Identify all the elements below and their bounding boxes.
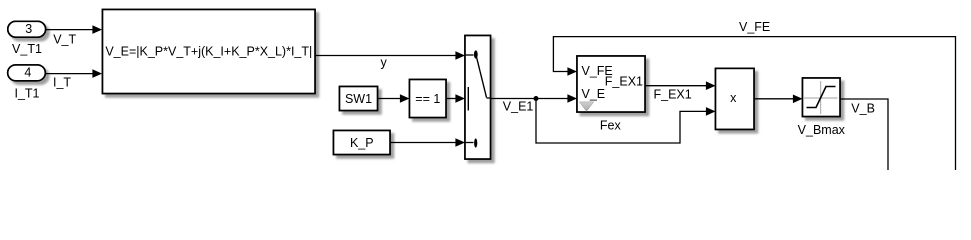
inport block 4 (I_T1) [8, 65, 46, 81]
svg-text:== 1: == 1 [415, 92, 440, 106]
wire V_T [46, 25, 102, 34]
wire SW1 to compare [378, 94, 410, 103]
wire junction down to product input 2 [536, 99, 716, 144]
svg-text:V_FE: V_FE [739, 20, 770, 34]
svg-text:V_E1: V_E1 [503, 99, 534, 113]
svg-text:V_Bmax: V_Bmax [798, 123, 846, 137]
product block x [716, 68, 755, 129]
badge triangle [579, 102, 594, 112]
svg-text:V_E: V_E [582, 87, 606, 101]
switch block SW [465, 36, 491, 160]
svg-text:F_EX1: F_EX1 [654, 88, 692, 102]
switch input 3 marker [465, 142, 474, 144]
wire Fex to product [645, 81, 716, 90]
constant block K_P [334, 131, 391, 155]
wire K_P to switch [390, 138, 465, 147]
switch control marker [467, 87, 469, 111]
subsystem block Fex [577, 56, 645, 112]
svg-text:I_T: I_T [53, 76, 71, 90]
switch diagonal [477, 57, 487, 98]
svg-text:V_E=|K_P*V_T+j(K_I+K_P*X_L)*I_: V_E=|K_P*V_T+j(K_I+K_P*X_L)*I_T| [105, 45, 312, 59]
svg-text:V_T1: V_T1 [12, 42, 42, 56]
switch output stub [487, 97, 491, 99]
svg-text:I_T1: I_T1 [14, 87, 39, 101]
feedback wire V_FE [553, 37, 955, 170]
svg-text:V_B: V_B [851, 101, 875, 115]
svg-text:K_P: K_P [350, 136, 374, 150]
switch input 1 marker [465, 54, 474, 56]
Fcn block U1: V_E equation [103, 10, 316, 94]
wire V_B out [840, 99, 888, 170]
wire product to saturation [754, 95, 803, 104]
saturation curve [807, 87, 836, 108]
svg-text:Fex: Fex [600, 118, 622, 132]
svg-text:V_T: V_T [53, 32, 76, 46]
svg-text:x: x [730, 91, 737, 105]
svg-text:F_EX1: F_EX1 [605, 74, 643, 88]
saturation block V_Bmax [803, 78, 841, 117]
svg-text:3: 3 [25, 22, 32, 36]
wire I_T [45, 69, 102, 78]
junction node [534, 96, 539, 101]
constant block SW1 [340, 87, 378, 111]
wire y [315, 51, 465, 60]
svg-text:4: 4 [24, 66, 31, 80]
svg-text:y: y [381, 56, 388, 70]
wire compare to switch [446, 94, 465, 103]
svg-text:SW1: SW1 [345, 92, 372, 106]
saturation axes [820, 81, 822, 114]
inport block 3 (V_T1) [8, 21, 46, 37]
compare block == 1 [410, 80, 447, 118]
wire switch to Fex V_E [491, 94, 578, 103]
